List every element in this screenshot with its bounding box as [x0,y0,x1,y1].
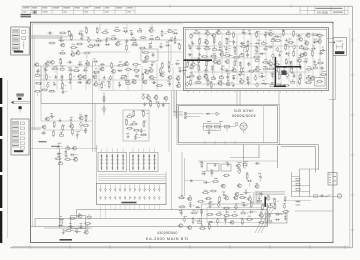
svg-text:4200/56060: 4200/56060 [231,113,256,118]
parallel signal verticals at left margin [31,24,33,227]
drawing number block top-left [21,14,32,16]
title strip mid rule right [300,9,348,11]
ac outlet circle [337,194,341,198]
jack bd diode [207,113,209,115]
TO POWER AMP label [16,94,23,95]
title strip bottom rule [22,13,348,15]
ladder resistors [296,178,300,180]
eq stage wires [33,65,120,67]
long vertical x92.5 [92,60,94,152]
upper chain main wire [58,39,182,41]
thick dark bus right horizontal [276,66,301,68]
preamp equalizer stage [35,63,39,67]
inner horizontal rule lower-right [295,210,333,212]
sub box below tone chain [141,49,158,61]
rca jack symbols [184,112,187,115]
contact box bottom label [122,202,137,204]
sheet right border line [351,6,353,248]
pilot lamp connector box [328,173,337,186]
muting driver small cluster [57,144,59,146]
power amplifier block inner frame [185,29,327,89]
top inner horizontal wire [31,23,184,25]
thick dark bus right vertical [274,57,276,87]
power amp bus wires [190,33,320,35]
wire down to ps cluster [277,147,279,168]
connector blob upper [18,98,22,100]
sheet bottom border line [10,247,352,249]
rail end verticals [34,218,36,226]
vertical x166 to contact box [165,172,167,184]
wire power amp to jack bd 1 [173,91,175,113]
muting bottom wire [44,227,92,229]
eq vertical drops [43,64,45,90]
function selector labels [39,141,47,142]
protector sub-box 2 [221,164,231,171]
wire right box to frame [329,41,334,43]
vertical into contact area x96.5 [96,145,98,184]
sheet right inner border line [349,28,351,247]
frame right edge fade overlay [332,24,334,241]
filter row mid-left [46,117,50,121]
long vertical x169 [168,103,170,152]
long vertical x95 [94,103,96,152]
input connector box A [11,27,29,55]
contact strip box [97,184,167,205]
jack bd entry stripes [173,110,183,112]
registration ticks right edge [351,39,354,41]
vertical riser x41 [40,66,42,103]
title strip cell dividers [21,6,23,14]
muting label [60,239,73,241]
svg-text:JACK B'D: JACK B'D [233,109,253,114]
jack bd exit verticals [243,145,245,168]
speaker box dark label [335,51,344,54]
protection circuit parts [201,163,203,167]
vertical through muting x59.6 [59,149,61,229]
title strip mid rule left [22,9,135,11]
ps bus bundle vertical [253,192,255,204]
svg-text:KA-3500 MAIN B'D: KA-3500 MAIN B'D [146,236,189,241]
sheet bottom inner border line [12,245,350,247]
sub-box mid center parts [127,116,131,118]
box A dark label [14,51,23,53]
filter row wires [41,120,92,122]
wire ladder between switch and contact box [98,173,166,175]
jack bd bottom pin stubs [204,141,206,144]
long vertical x171.5 [171,91,173,210]
power supply small box [266,214,288,224]
verticals below contact box [100,205,102,219]
power supply circuitry [180,197,184,199]
registration ticks top edge [89,5,91,8]
power amplifier block outer frame [184,28,329,91]
muting circuit parts [60,218,62,221]
connector blob lower [19,106,22,109]
ps bundle horizontal [255,191,285,193]
long wires to right [278,144,319,146]
svg-text:4300/82860: 4300/82860 [157,231,177,235]
switch wafer elements [101,149,103,153]
small mid circle [235,123,238,126]
ladder top connector [300,168,319,170]
bottom rail y209.6 [77,209,268,211]
registration ticks bottom edge [29,245,31,248]
box A right column parts [22,31,26,34]
relay ladder horizontals [292,176,300,178]
dark connector square in power amp [282,71,287,76]
sheet left faint edge line [7,80,9,238]
pin stub row below power amp box [187,91,189,93]
scan black strip left edge [0,78,2,104]
bottom right small parts [314,195,318,197]
ps dark blob vertical [264,197,266,208]
selector switch group 2 box [130,153,159,172]
small box power amp bottom right [315,78,326,87]
thick dark bus left [184,59,213,61]
revision cell marker [33,11,36,14]
box B dark label [14,150,23,152]
wire y157 stub [230,156,259,158]
power supply inner box 2 [207,208,261,223]
diode ps right [297,200,299,202]
vertical chain below eq [103,92,105,115]
jack board inner outline [178,106,277,143]
connector box B [11,119,29,155]
power amplifier circuitry [190,35,193,38]
selector switch group 1 box [98,153,127,172]
svg-text:KA-3500: KA-3500 [317,10,328,14]
title strip tiny cell texts [23,6,29,9]
jack board inner divider [262,106,264,143]
verticals left below jack bd [181,152,183,199]
switch wafer elements [132,149,134,153]
thick dark bus bottom [274,85,286,87]
ps top wire [198,160,278,162]
sheet top border line [22,5,352,7]
bottom rail y218.4 [35,217,268,219]
power supply inner box [202,204,268,227]
muting circuit box [71,216,86,229]
wires to power amp bd [14,101,31,103]
relay ladder verticals [291,172,293,197]
wire to speaker box upper [327,38,333,40]
title block right texts [316,8,343,9]
tone control stage upper chain [61,32,65,34]
eq tail lower extension [142,96,145,99]
right side L wire [335,55,337,99]
sub-box mid center [123,110,149,141]
speaker terminal box right of frame [333,38,346,56]
jack board outer outline [177,104,280,144]
wires power box bottom to jack box [236,91,238,106]
power amp vertical wire grid [191,33,193,81]
contact rows [100,189,102,191]
protector sub-box 1 [207,164,219,172]
bus stripe from box B [29,127,41,129]
headphone jack circle [240,123,247,130]
jack bd resistor chain [202,126,236,128]
main schematic frame [31,22,334,242]
bus stripe from box A [29,34,63,36]
diagonal wires to bottom left [255,207,268,233]
horizontal bus y103 left [41,102,170,104]
wire power amp to jack bd 2 [175,91,177,119]
drops from top frame wire [99,24,101,31]
inner horizontal rule lower-left [31,226,268,228]
vertical pair right of tone chain [168,40,170,62]
input coupling parts [48,32,50,35]
